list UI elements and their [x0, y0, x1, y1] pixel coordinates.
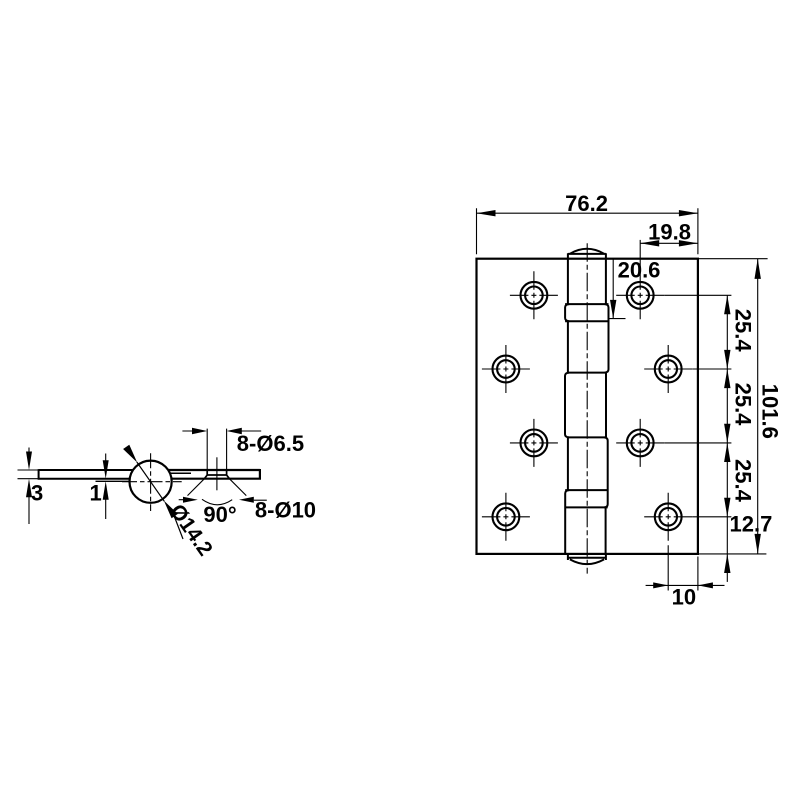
svg-text:20.6: 20.6 — [618, 257, 661, 282]
svg-text:3: 3 — [31, 481, 43, 506]
countersunk screw hole (side view) — [204, 470, 229, 479]
chain dimension 25.4 row2-row3 — [664, 369, 755, 443]
ring RB / knuckle K5 left tab — [565, 490, 569, 554]
svg-text:25.4: 25.4 — [731, 459, 756, 503]
chain dimension 25.4 row1-row2 — [664, 295, 755, 369]
chain dimension 25.4 row3-row4 — [692, 443, 755, 517]
countersink 90 deg flank lines — [188, 479, 247, 496]
knuckle circle — [130, 461, 172, 503]
screw hole H7 — [482, 493, 530, 541]
hinge plate outline — [477, 259, 698, 554]
svg-text:12.7: 12.7 — [730, 511, 773, 536]
svg-text:8-Ø10: 8-Ø10 — [255, 498, 316, 523]
SIDE VIEW GROUP — [18, 428, 317, 560]
svg-text:90°: 90° — [203, 502, 236, 527]
barrel boundary line 321 — [565, 320, 608, 322]
screw hole H8 — [644, 493, 692, 541]
leaf curl line right — [170, 472, 191, 474]
dimension 101.6 — [699, 259, 783, 554]
svg-text:1: 1 — [90, 481, 102, 506]
screw hole H5 — [510, 419, 558, 467]
knuckle centerline vertical — [150, 453, 152, 511]
countersink centerline — [216, 457, 218, 490]
screw hole H3 — [482, 345, 530, 393]
dimension 19.8 — [640, 220, 698, 272]
barrel boundary line 490.1 — [565, 489, 608, 491]
knuckle centerline horizontal — [122, 481, 182, 483]
svg-text:10: 10 — [672, 584, 696, 609]
dia 14.2 upper arrow — [123, 445, 137, 463]
barrel pin cap bottom — [568, 554, 606, 564]
dimension 12.7 — [724, 511, 772, 582]
barrel pin cap top — [568, 249, 606, 259]
svg-text:19.8: 19.8 — [648, 220, 691, 245]
screw hole H6 — [616, 419, 664, 467]
knuckle K4 / ring RB right tab — [604, 437, 608, 507]
dimension 3 witness lines — [18, 470, 39, 479]
barrel boundary line 372.6 — [568, 372, 606, 374]
dimension 10 — [646, 545, 725, 609]
screw hole H1 — [510, 271, 558, 319]
dimension 8-dia6.5 witness lines — [207, 429, 226, 470]
barrel centerline — [586, 243, 588, 573]
svg-text:25.4: 25.4 — [731, 309, 756, 353]
ring RA / knuckle K2 right tab — [605, 304, 609, 373]
barrel knuckle K4 left edge — [567, 437, 569, 490]
90 deg angle arc — [202, 499, 232, 504]
dia 14.2 leader line through circle — [137, 462, 165, 501]
barrel knuckle K1 — [568, 259, 606, 304]
dimension 3 extension lines and arrows — [28, 448, 30, 525]
dimension 8-dia6.5 line and arrows — [182, 430, 261, 432]
90 deg arrows — [179, 499, 183, 501]
barrel boundary line 304 — [565, 303, 608, 305]
dia 14.2 lower arrow and tail — [164, 501, 178, 519]
barrel knuckle K3 right edge — [605, 373, 607, 438]
screw hole H4 — [644, 345, 692, 393]
barrel knuckle K2 left edge — [567, 321, 569, 372]
barrel knuckle K3 left tab — [565, 373, 569, 438]
dimension 1 extension lines and arrows — [105, 454, 107, 520]
bearing ring RA left tab — [565, 304, 569, 321]
svg-text:101.6: 101.6 — [758, 384, 783, 439]
svg-text:76.2: 76.2 — [565, 191, 608, 216]
svg-text:8-Ø6.5: 8-Ø6.5 — [237, 431, 304, 456]
left leaf (side view) — [39, 469, 134, 480]
barrel boundary line 507.4 — [565, 506, 608, 508]
barrel boundary line 437.4 — [568, 436, 606, 438]
screw hole H2 — [616, 271, 664, 319]
leaf curl line left (witness for dim 1) — [96, 480, 130, 482]
FRONT VIEW GROUP — [477, 191, 783, 610]
dimension 76.2 — [477, 191, 698, 254]
right leaf (side view) — [168, 469, 260, 480]
barrel knuckle K5 right edge — [605, 507, 607, 554]
svg-text:25.4: 25.4 — [731, 383, 756, 427]
dimension 20.6 — [609, 257, 661, 318]
